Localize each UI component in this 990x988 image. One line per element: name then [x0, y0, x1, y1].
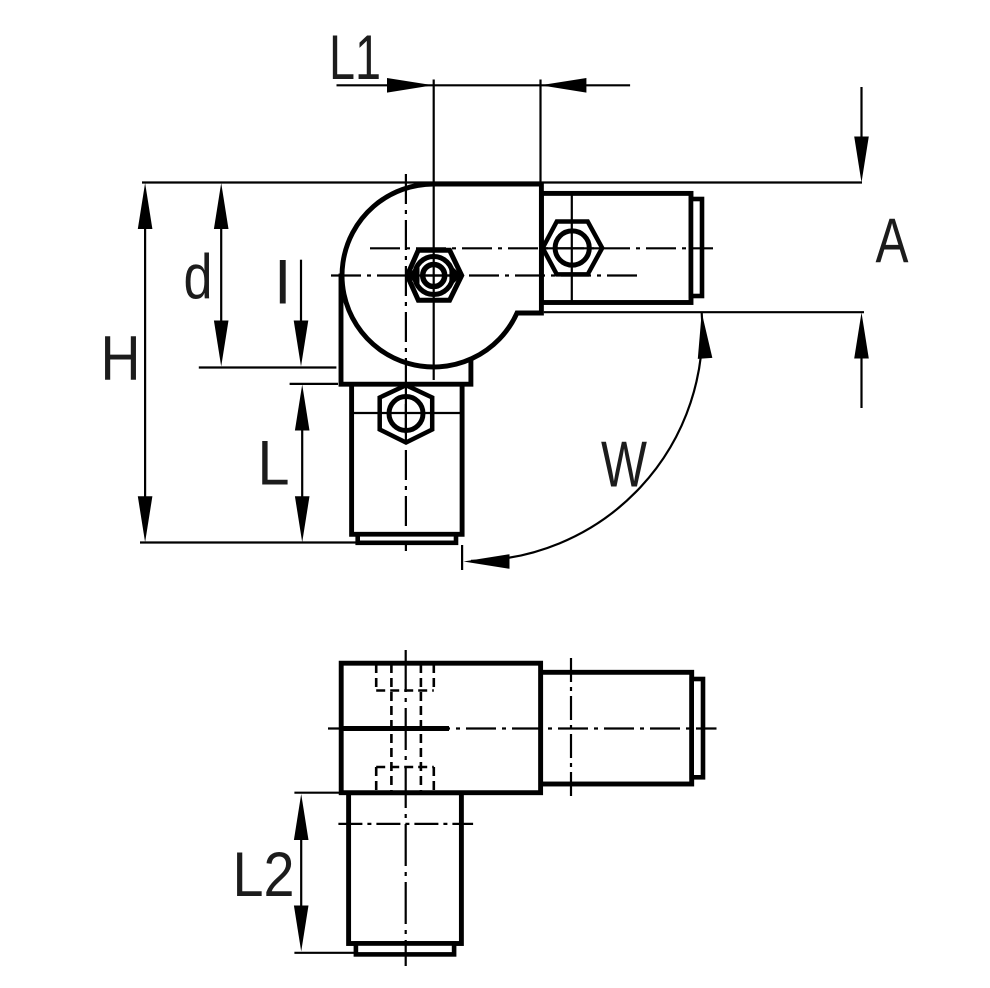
- dimension H: [138, 183, 153, 542]
- centerline main tube axis (horizontal): [331, 274, 641, 276]
- clamp body (bottom view): [341, 663, 540, 793]
- dimension d: [214, 183, 229, 367]
- dimension L: [295, 385, 310, 543]
- dimension L2: [294, 794, 309, 952]
- centerline vertical arm axis: [405, 174, 407, 551]
- labels top view: [101, 23, 909, 501]
- dimension W (angle arc): [464, 312, 713, 569]
- horizontal arm end cap: [691, 199, 702, 296]
- svg-text:d: d: [184, 243, 213, 313]
- extension line W bottom (arm right edge extended): [461, 545, 463, 570]
- dimension I: [294, 260, 309, 367]
- bottom extension line (H bottom): [140, 541, 360, 543]
- lower arm end cap: [356, 944, 454, 955]
- dimension L1: [337, 78, 631, 93]
- centerline horizontal arm axis: [370, 247, 713, 249]
- vertical arm tube (top view): [352, 383, 463, 534]
- dimension A: [854, 87, 869, 408]
- seam line horizontal arm: [571, 193, 573, 302]
- hidden bolt hole lines: [376, 664, 434, 791]
- seam line vertical arm: [352, 412, 463, 414]
- svg-text:L: L: [258, 429, 290, 499]
- extension line d bottom (circle tangent): [199, 366, 337, 368]
- clamp seam (bottom view): [341, 726, 449, 731]
- centerline horizontal arm axis (bottom view): [328, 727, 717, 729]
- svg-text:H: H: [101, 324, 141, 394]
- horizontal arm end cap (bottom view): [692, 679, 703, 777]
- nut B2 (horizontal arm bolt): [543, 222, 603, 275]
- centerline vertical arm bolt (bottom view): [338, 823, 473, 825]
- svg-text:L2: L2: [233, 840, 295, 910]
- L2 bottom extension line: [294, 952, 356, 954]
- vertical arm end cap: [358, 534, 456, 543]
- svg-text:W: W: [601, 428, 647, 501]
- nut B3 (vertical arm bolt): [380, 385, 433, 442]
- svg-text:L1: L1: [329, 23, 381, 93]
- L1 right extension line: [539, 80, 541, 183]
- solid crossing segments at nuts: [545, 247, 600, 249]
- top extension line (H/A reference): [142, 181, 862, 183]
- centerline vertical arm axis (bottom view): [405, 650, 407, 966]
- clamp flange: [341, 276, 471, 384]
- elbow body: [342, 184, 541, 367]
- horizontal arm tube (bottom view): [541, 672, 692, 784]
- horizontal arm tube (top view): [541, 193, 691, 302]
- lower arm tube (bottom view): [349, 793, 462, 944]
- svg-text:A: A: [876, 206, 909, 276]
- label L2: [233, 840, 295, 910]
- extension line below horizontal arm (A bottom): [544, 311, 864, 313]
- svg-text:I: I: [274, 248, 292, 318]
- nut B1 (center bolt): [407, 250, 462, 300]
- extension line L top (flange bottom): [290, 383, 338, 385]
- L1 extension line / circle vertical axis: [433, 80, 435, 381]
- L2 top extension line: [294, 792, 345, 794]
- centerline horizontal arm bolt (bottom view): [570, 658, 572, 797]
